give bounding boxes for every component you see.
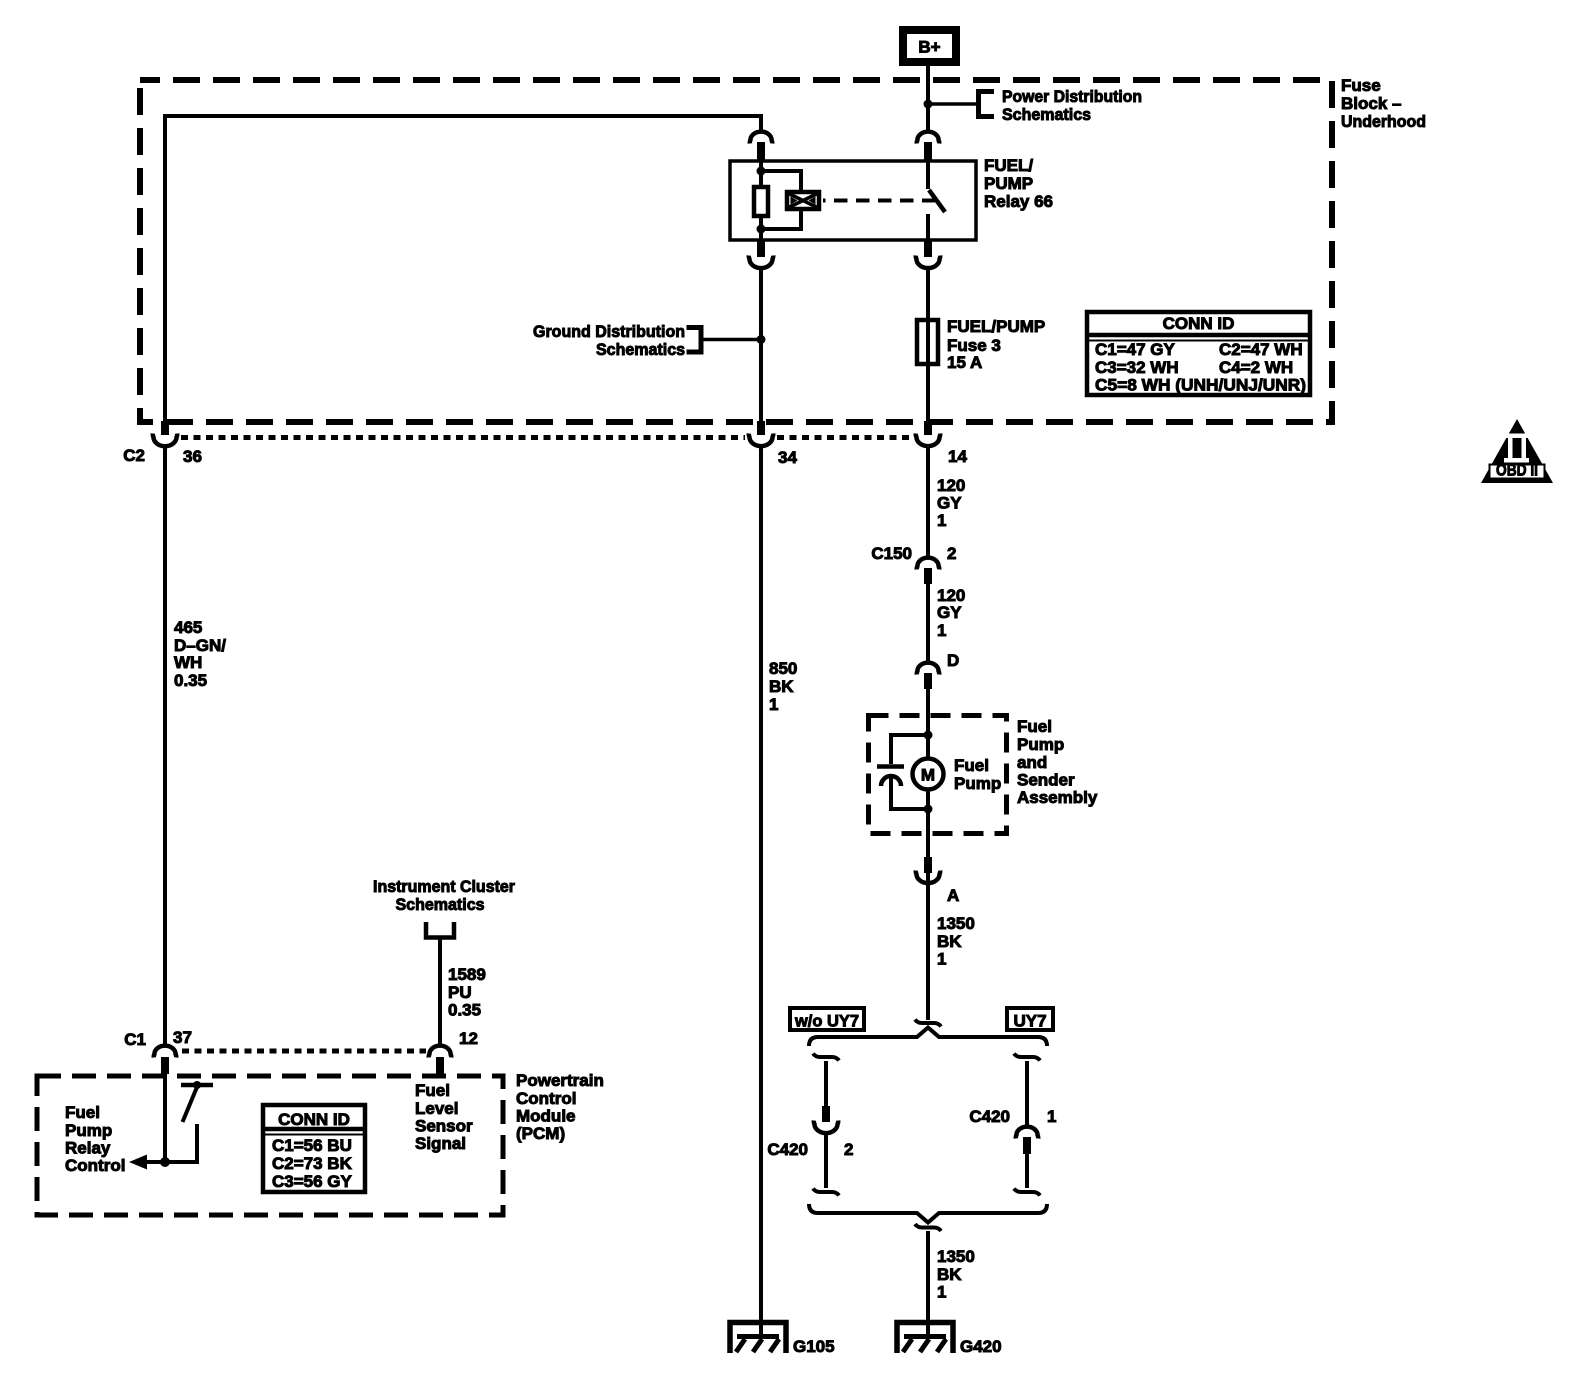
svg-text:12: 12 [459,1029,478,1048]
splice break tick [915,1020,941,1027]
svg-text:Schematics: Schematics [396,895,485,914]
svg-text:Block –: Block – [1341,94,1401,113]
svg-text:C3=32 WH: C3=32 WH [1095,358,1179,377]
relay switch [926,161,930,189]
connector C420 pin 2 [822,1106,830,1122]
svg-text:0.35: 0.35 [174,671,207,690]
svg-text:Instrument Cluster: Instrument Cluster [373,877,515,896]
svg-text:Fuel: Fuel [415,1081,450,1100]
svg-text:2: 2 [947,544,956,563]
svg-text:Schematics: Schematics [596,340,685,359]
svg-text:1589: 1589 [448,965,486,984]
svg-text:850: 850 [769,659,797,678]
inline connector dotted line [181,435,911,440]
svg-text:C4=2 WH: C4=2 WH [1219,358,1293,377]
svg-text:Powertrain: Powertrain [516,1071,604,1090]
svg-text:1: 1 [1047,1107,1056,1126]
branch tick left [813,1054,839,1061]
wire 1589 PU [438,939,442,1044]
wire 120 GY segment 1 [926,448,930,557]
connector: relay pin bottom right [924,241,932,257]
option branch brace bottom [809,1204,1047,1223]
svg-text:C150: C150 [871,544,912,563]
svg-text:C2=73 BK: C2=73 BK [272,1154,353,1173]
svg-text:34: 34 [778,448,797,467]
svg-text:1350: 1350 [937,914,975,933]
PCM driver switch [181,1083,213,1088]
ground G105 [730,1323,786,1354]
svg-text:Signal: Signal [415,1134,466,1153]
svg-text:0.35: 0.35 [448,1001,481,1020]
svg-text:37: 37 [173,1028,192,1047]
wire 465 D-GN/WH [163,448,167,1044]
svg-text:Relay 66: Relay 66 [984,192,1053,211]
svg-text:C1=56 BU: C1=56 BU [272,1136,352,1155]
resistor (relay coil suppression) [754,187,768,216]
powertrain control module dashed box [37,1076,503,1215]
option label w/o UY7 [790,1008,864,1030]
svg-text:Fuel: Fuel [65,1103,100,1122]
svg-text:Level: Level [415,1099,458,1118]
svg-text:Fuse: Fuse [1341,76,1381,95]
svg-text:C1: C1 [124,1030,146,1049]
svg-text:CONN ID: CONN ID [1163,314,1235,333]
svg-text:and: and [1017,753,1047,772]
branch tick right [1014,1054,1040,1061]
svg-text:1: 1 [937,621,946,640]
svg-text:OBD II: OBD II [1496,461,1538,480]
fuel pump bypass branch [891,735,928,764]
fuel pump motor [913,759,944,790]
svg-text:C420: C420 [969,1107,1010,1126]
svg-text:Pump: Pump [954,774,1001,793]
svg-text:Pump: Pump [65,1121,112,1140]
svg-text:36: 36 [183,447,202,466]
branch tick bottom left [813,1189,839,1196]
svg-text:Module: Module [516,1107,576,1126]
wire w/o UY7 branch [824,1061,828,1106]
svg-text:WH: WH [174,653,202,672]
svg-text:14: 14 [948,447,967,466]
fuel pump relay control arrow [146,1160,199,1164]
svg-text:C420: C420 [767,1140,808,1159]
svg-text:1350: 1350 [937,1247,975,1266]
fuse block underhood dashed box [140,80,1332,422]
wire 850 BK [759,448,763,1336]
wire UY7 branch [1025,1061,1029,1125]
svg-text:G420: G420 [960,1337,1002,1356]
connector pin A [924,857,932,873]
ground G420 [897,1323,953,1354]
wire: relay through fuse down [926,268,930,318]
svg-text:1: 1 [937,950,946,969]
svg-text:FUEL/: FUEL/ [984,156,1033,175]
svg-text:Relay: Relay [65,1139,111,1158]
svg-text:(PCM): (PCM) [516,1124,565,1143]
relay FUEL/PUMP Relay 66 box [730,161,976,240]
CONN ID table (fuse block) [1087,312,1310,395]
connector: relay pin bottom left [757,241,765,257]
svg-text:Sensor: Sensor [415,1117,473,1136]
fuse FUEL/PUMP Fuse 3 15A [917,320,938,364]
svg-text:15 A: 15 A [947,353,982,372]
svg-text:C2=47 WH: C2=47 WH [1219,340,1303,359]
svg-text:GY: GY [937,603,962,622]
wire pin D to fuel pump [926,689,930,1020]
svg-text:D: D [947,651,959,670]
connector C150 pin 2 [917,558,939,570]
svg-text:GY: GY [937,494,962,513]
connector pin 14 [924,421,932,435]
fuel pump and sender assembly dashed box [869,716,1007,834]
svg-text:Fuel: Fuel [1017,717,1052,736]
node [757,335,766,344]
node [757,225,766,234]
node [757,167,766,176]
svg-text:G105: G105 [793,1337,835,1356]
relay coil (solenoid box with X) [787,192,819,209]
connector pin 34 [757,421,765,435]
svg-text:CONN ID: CONN ID [278,1110,350,1129]
svg-text:C5=8 WH (UNH/UNJ/UNR): C5=8 WH (UNH/UNJ/UNR) [1095,376,1306,395]
svg-text:Schematics: Schematics [1002,105,1091,124]
svg-text:w/o UY7: w/o UY7 [794,1012,859,1031]
svg-text:Fuel: Fuel [954,756,989,775]
svg-text:PUMP: PUMP [984,174,1033,193]
svg-text:C1=47 GY: C1=47 GY [1095,340,1176,359]
wire 120 GY segment 2 [926,584,930,662]
svg-text:Control: Control [65,1156,125,1175]
svg-text:1: 1 [937,1283,946,1302]
svg-text:120: 120 [937,476,965,495]
branch tick bottom right [1014,1189,1040,1196]
splice break tick bottom [915,1224,941,1231]
relay coil branch wires [759,161,763,185]
battery terminal B+ [903,30,956,62]
svg-text:465: 465 [174,618,202,637]
node [924,805,933,814]
svg-text:A: A [947,886,959,905]
option branch brace top [809,1028,1047,1047]
svg-text:M: M [921,766,935,785]
relay linkage dashed line [823,199,936,203]
wire 1350 BK lower [926,1231,930,1336]
svg-text:Power Distribution: Power Distribution [1002,87,1142,106]
wire B+ to relay [926,66,930,130]
node: power distribution tap [924,100,933,109]
svg-text:BK: BK [937,932,962,951]
svg-text:Control: Control [516,1089,576,1108]
wire pin 37 to driver [163,1074,167,1162]
svg-text:UY7: UY7 [1013,1012,1046,1031]
svg-text:Assembly: Assembly [1017,788,1098,807]
option label UY7 [1007,1008,1053,1030]
svg-text:2: 2 [844,1140,853,1159]
svg-text:C2: C2 [123,446,145,465]
svg-text:B+: B+ [918,38,940,57]
svg-text:Underhood: Underhood [1341,112,1426,131]
svg-text:BK: BK [769,677,794,696]
wire to junction [703,338,761,342]
svg-text:FUEL/PUMP: FUEL/PUMP [947,317,1045,336]
inline connector dotted line (PCM) [182,1049,426,1054]
CONN ID table (PCM) [263,1105,365,1192]
node [160,1157,170,1167]
wire: left feed from relay pin across top and down [165,116,761,421]
wire: relay to ground distribution junction and pin 34 [759,268,763,421]
svg-text:BK: BK [937,1265,962,1284]
connector: relay pin top left [750,132,772,144]
node [924,731,933,740]
connector C2 pin 36 [161,421,169,435]
power distribution schematics bracket [979,92,995,117]
OBD II symbol [1481,419,1553,483]
svg-text:Sender: Sender [1017,771,1075,790]
connector: relay pin top right [917,132,939,144]
svg-text:Ground Distribution: Ground Distribution [533,322,685,341]
svg-text:1: 1 [769,695,778,714]
connector pin D [917,663,939,675]
svg-text:Pump: Pump [1017,735,1064,754]
svg-text:C3=56 GY: C3=56 GY [272,1172,353,1191]
svg-text:PU: PU [448,983,472,1002]
wire to power distribution bracket [928,102,976,106]
svg-text:1: 1 [937,511,946,530]
